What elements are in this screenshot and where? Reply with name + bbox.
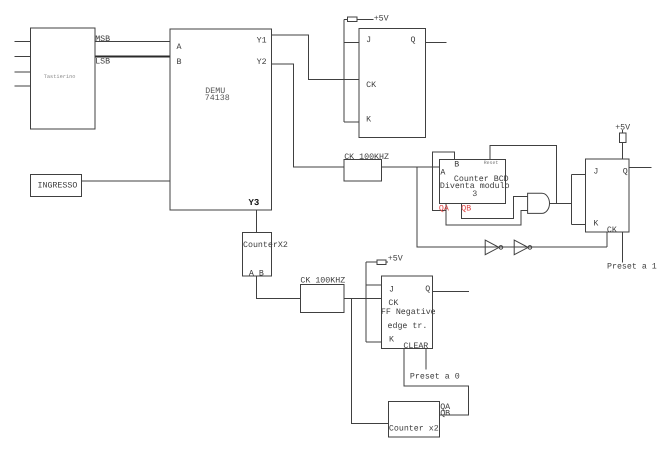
- svg-text:3: 3: [472, 190, 477, 199]
- svg-text:Preset a 1: Preset a 1: [607, 262, 657, 271]
- svg-text:CK 100KHZ: CK 100KHZ: [344, 153, 389, 162]
- svg-text:Tastierino: Tastierino: [44, 74, 76, 80]
- svg-text:Y2: Y2: [257, 58, 267, 67]
- svg-text:B: B: [454, 161, 459, 170]
- svg-text:Q: Q: [411, 36, 416, 45]
- svg-text:FF Negative: FF Negative: [381, 307, 436, 317]
- svg-text:edge tr.: edge tr.: [388, 321, 428, 331]
- svg-text:QB: QB: [440, 410, 450, 419]
- svg-text:MSB: MSB: [95, 35, 110, 44]
- svg-text:INGRESSO: INGRESSO: [38, 182, 78, 191]
- svg-text:QA: QA: [439, 204, 449, 213]
- svg-text:Y3: Y3: [249, 198, 260, 208]
- svg-text:J: J: [389, 286, 394, 295]
- svg-text:+5V: +5V: [374, 15, 389, 24]
- svg-text:J: J: [366, 36, 371, 45]
- svg-text:CK: CK: [366, 81, 376, 90]
- svg-text:K: K: [389, 335, 394, 344]
- svg-text:B: B: [177, 58, 182, 67]
- svg-text:Y1: Y1: [257, 36, 267, 45]
- svg-text:CLEAR: CLEAR: [403, 342, 428, 351]
- svg-text:CounterX2: CounterX2: [243, 241, 288, 250]
- svg-text:LSB: LSB: [95, 57, 110, 66]
- svg-text:Q: Q: [425, 285, 430, 294]
- svg-text:K: K: [593, 220, 598, 229]
- svg-text:Q: Q: [623, 168, 628, 177]
- svg-text:Preset a 0: Preset a 0: [410, 373, 460, 382]
- svg-text:+5V: +5V: [615, 124, 630, 133]
- svg-text:CK 100KHZ: CK 100KHZ: [300, 277, 345, 286]
- svg-text:A B: A B: [249, 270, 264, 279]
- svg-text:K: K: [366, 115, 371, 124]
- svg-text:Counter x2: Counter x2: [389, 425, 439, 434]
- svg-text:A: A: [440, 168, 445, 177]
- svg-text:74138: 74138: [205, 94, 230, 103]
- svg-text:CK: CK: [607, 226, 617, 235]
- svg-text:+5V: +5V: [388, 255, 403, 264]
- svg-text:J: J: [593, 168, 598, 177]
- svg-text:A: A: [177, 43, 182, 52]
- svg-text:QB: QB: [461, 204, 471, 213]
- svg-text:CK: CK: [388, 299, 398, 308]
- svg-text:Reset: Reset: [484, 160, 499, 166]
